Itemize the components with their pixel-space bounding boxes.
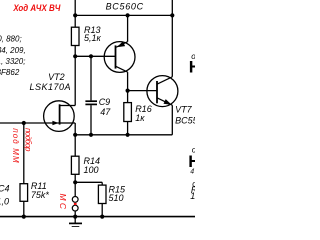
- svg-text:под ММ: под ММ: [11, 128, 20, 163]
- svg-text:1, 3320;: 1, 3320;: [0, 57, 25, 66]
- svg-text:подбор: подбор: [23, 128, 32, 152]
- svg-text:VT7: VT7: [175, 105, 193, 115]
- svg-text:LSK170A: LSK170A: [30, 82, 71, 92]
- svg-text:75k*: 75k*: [31, 190, 50, 200]
- svg-text:Ход АЧХ ВЧ: Ход АЧХ ВЧ: [13, 3, 61, 14]
- svg-text:47: 47: [190, 168, 195, 175]
- svg-text:VT2: VT2: [48, 72, 65, 82]
- svg-text:1к: 1к: [135, 113, 145, 123]
- svg-text:C9: C9: [99, 97, 111, 107]
- svg-text:BF862: BF862: [0, 68, 20, 77]
- svg-text:47: 47: [100, 107, 111, 117]
- svg-text:34, 209,: 34, 209,: [0, 46, 26, 55]
- svg-text:C4: C4: [0, 183, 10, 193]
- svg-text:5,1к: 5,1к: [84, 33, 102, 43]
- svg-text:BC550C: BC550C: [175, 115, 195, 125]
- svg-text:BC560C: BC560C: [106, 2, 144, 12]
- svg-text:100: 100: [84, 165, 99, 175]
- svg-text:510: 510: [109, 193, 124, 203]
- svg-text:1,: 1,: [190, 191, 195, 201]
- svg-text:Н: Н: [189, 57, 195, 76]
- svg-text:0, 880;: 0, 880;: [0, 34, 22, 43]
- svg-text:1,0: 1,0: [0, 197, 9, 207]
